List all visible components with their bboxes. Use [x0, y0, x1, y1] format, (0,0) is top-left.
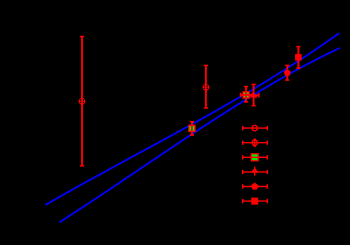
legend entry 4: error bar with filled triangle marker: [243, 167, 268, 176]
data point P7 (x=298): filled red square marker with y error bar: [295, 47, 302, 69]
data point P4 (x=246): green square marker with x and y error bars: [241, 87, 253, 102]
data point P1 (x=82): open-circle marker with tall y error bar: [79, 37, 84, 166]
legend entry 1: error bar with open-circle marker: [243, 125, 268, 130]
fit curve upper: [46, 33, 339, 204]
data point P2 (x=206): open-circle marker with y error bar: [203, 65, 208, 108]
legend entry 6: error bar with filled red square marker: [243, 198, 268, 205]
data point P3 (x=192): green square marker with y error bar: [189, 122, 195, 135]
data point P5 (x=254): filled triangle marker with x and y error bars: [250, 84, 259, 105]
fit curve lower: [60, 48, 339, 222]
legend entry 2: error bar with open-circle marker and y-error tick: [243, 139, 268, 146]
legend entry 3: error bar with green square marker: [243, 154, 268, 161]
legend entry 5: error bar with filled pentagon marker: [243, 183, 268, 190]
data point P6 (x=287): filled pentagon marker with y error bar: [284, 65, 291, 80]
